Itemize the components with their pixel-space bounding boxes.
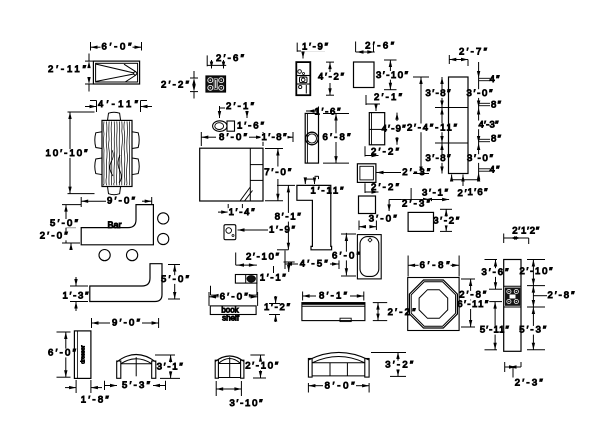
svg-text:dresser: dresser bbox=[81, 345, 87, 364]
svg-text:1′-8″: 1′-8″ bbox=[262, 132, 288, 143]
svg-text:1′-6″: 1′-6″ bbox=[237, 121, 265, 132]
svg-text:3′-1″: 3′-1″ bbox=[422, 187, 449, 198]
svg-text:3′-0″: 3′-0″ bbox=[467, 88, 494, 99]
svg-text:2′-6″: 2′-6″ bbox=[216, 53, 245, 64]
svg-text:Bar: Bar bbox=[107, 220, 121, 230]
svg-text:2′-8″: 2′-8″ bbox=[548, 290, 576, 301]
svg-text:2′-0″: 2′-0″ bbox=[40, 231, 69, 242]
svg-text:2′-2″: 2′-2″ bbox=[371, 147, 400, 158]
svg-text:1′6″: 1′6″ bbox=[468, 187, 489, 198]
svg-text:8′-1″: 8′-1″ bbox=[319, 291, 348, 302]
svg-text:3′-8″: 3′-8″ bbox=[426, 88, 452, 99]
svg-text:2′-3″: 2′-3″ bbox=[402, 199, 431, 210]
svg-text:3′-2″: 3′-2″ bbox=[433, 216, 460, 227]
svg-text:5′-3″: 5′-3″ bbox=[519, 325, 547, 336]
svg-text:1′-9″: 1′-9″ bbox=[302, 42, 329, 53]
svg-text:3′-8″: 3′-8″ bbox=[426, 153, 452, 164]
svg-text:6′-0″: 6′-0″ bbox=[102, 42, 133, 53]
svg-text:7′-0″: 7′-0″ bbox=[264, 167, 292, 178]
svg-text:5′-0″: 5′-0″ bbox=[50, 218, 79, 229]
svg-text:3′-0″: 3′-0″ bbox=[369, 214, 398, 225]
svg-text:9′-0″: 9′-0″ bbox=[107, 196, 136, 207]
svg-text:3′-10″: 3′-10″ bbox=[376, 70, 409, 81]
svg-text:6′-0″: 6′-0″ bbox=[48, 348, 77, 359]
svg-text:2′-2″: 2′-2″ bbox=[371, 182, 400, 193]
svg-text:5′-3″: 5′-3″ bbox=[122, 380, 151, 391]
svg-text:6′-0″: 6′-0″ bbox=[332, 251, 361, 262]
svg-text:6′-0″: 6′-0″ bbox=[220, 292, 249, 303]
svg-text:5′-0″: 5′-0″ bbox=[161, 274, 190, 285]
svg-text:4′-2″: 4′-2″ bbox=[318, 72, 345, 83]
svg-text:2′-2″: 2′-2″ bbox=[161, 80, 190, 91]
svg-text:2′-7″: 2′-7″ bbox=[459, 47, 488, 58]
svg-text:3′-1″: 3′-1″ bbox=[157, 361, 184, 372]
svg-text:6′-11″: 6′-11″ bbox=[457, 299, 489, 310]
svg-text:1′-9″: 1′-9″ bbox=[269, 225, 296, 236]
svg-text:2′: 2′ bbox=[458, 188, 467, 199]
svg-text:3′-2″: 3′-2″ bbox=[385, 360, 414, 371]
svg-text:5′-11″: 5′-11″ bbox=[480, 325, 510, 336]
svg-text:1′-2″: 1′-2″ bbox=[264, 302, 291, 313]
svg-text:1′-8″: 1′-8″ bbox=[81, 395, 110, 406]
svg-text:6′-8″: 6′-8″ bbox=[323, 132, 352, 143]
svg-text:8′-0″: 8′-0″ bbox=[219, 132, 248, 143]
svg-text:2′-1″: 2′-1″ bbox=[226, 101, 255, 112]
svg-text:8′-0″: 8′-0″ bbox=[325, 381, 356, 392]
svg-text:2′1′2″: 2′1′2″ bbox=[512, 226, 540, 237]
svg-text:3′-0″: 3′-0″ bbox=[467, 153, 494, 164]
svg-text:2′-1″: 2′-1″ bbox=[374, 92, 403, 103]
svg-text:2′-3″: 2′-3″ bbox=[402, 167, 431, 178]
svg-text:9′-0″: 9′-0″ bbox=[112, 318, 141, 329]
svg-text:2′-4″-11″: 2′-4″-11″ bbox=[407, 122, 458, 133]
svg-text:4′-3″: 4′-3″ bbox=[479, 119, 500, 130]
svg-text:1′-3″: 1′-3″ bbox=[63, 290, 90, 301]
svg-text:2′-3″: 2′-3″ bbox=[515, 378, 544, 389]
svg-text:6′-8″: 6′-8″ bbox=[420, 260, 451, 271]
svg-text:3′-6″: 3′-6″ bbox=[482, 267, 510, 278]
svg-text:10′-10″: 10′-10″ bbox=[46, 148, 89, 159]
svg-text:1′-4″: 1′-4″ bbox=[229, 207, 256, 218]
svg-text:1′-1″: 1′-1″ bbox=[260, 273, 287, 284]
svg-text:8′-1″: 8′-1″ bbox=[275, 212, 302, 223]
svg-text:4′-5″: 4′-5″ bbox=[300, 259, 329, 270]
svg-text:2′-6″: 2′-6″ bbox=[365, 40, 395, 51]
